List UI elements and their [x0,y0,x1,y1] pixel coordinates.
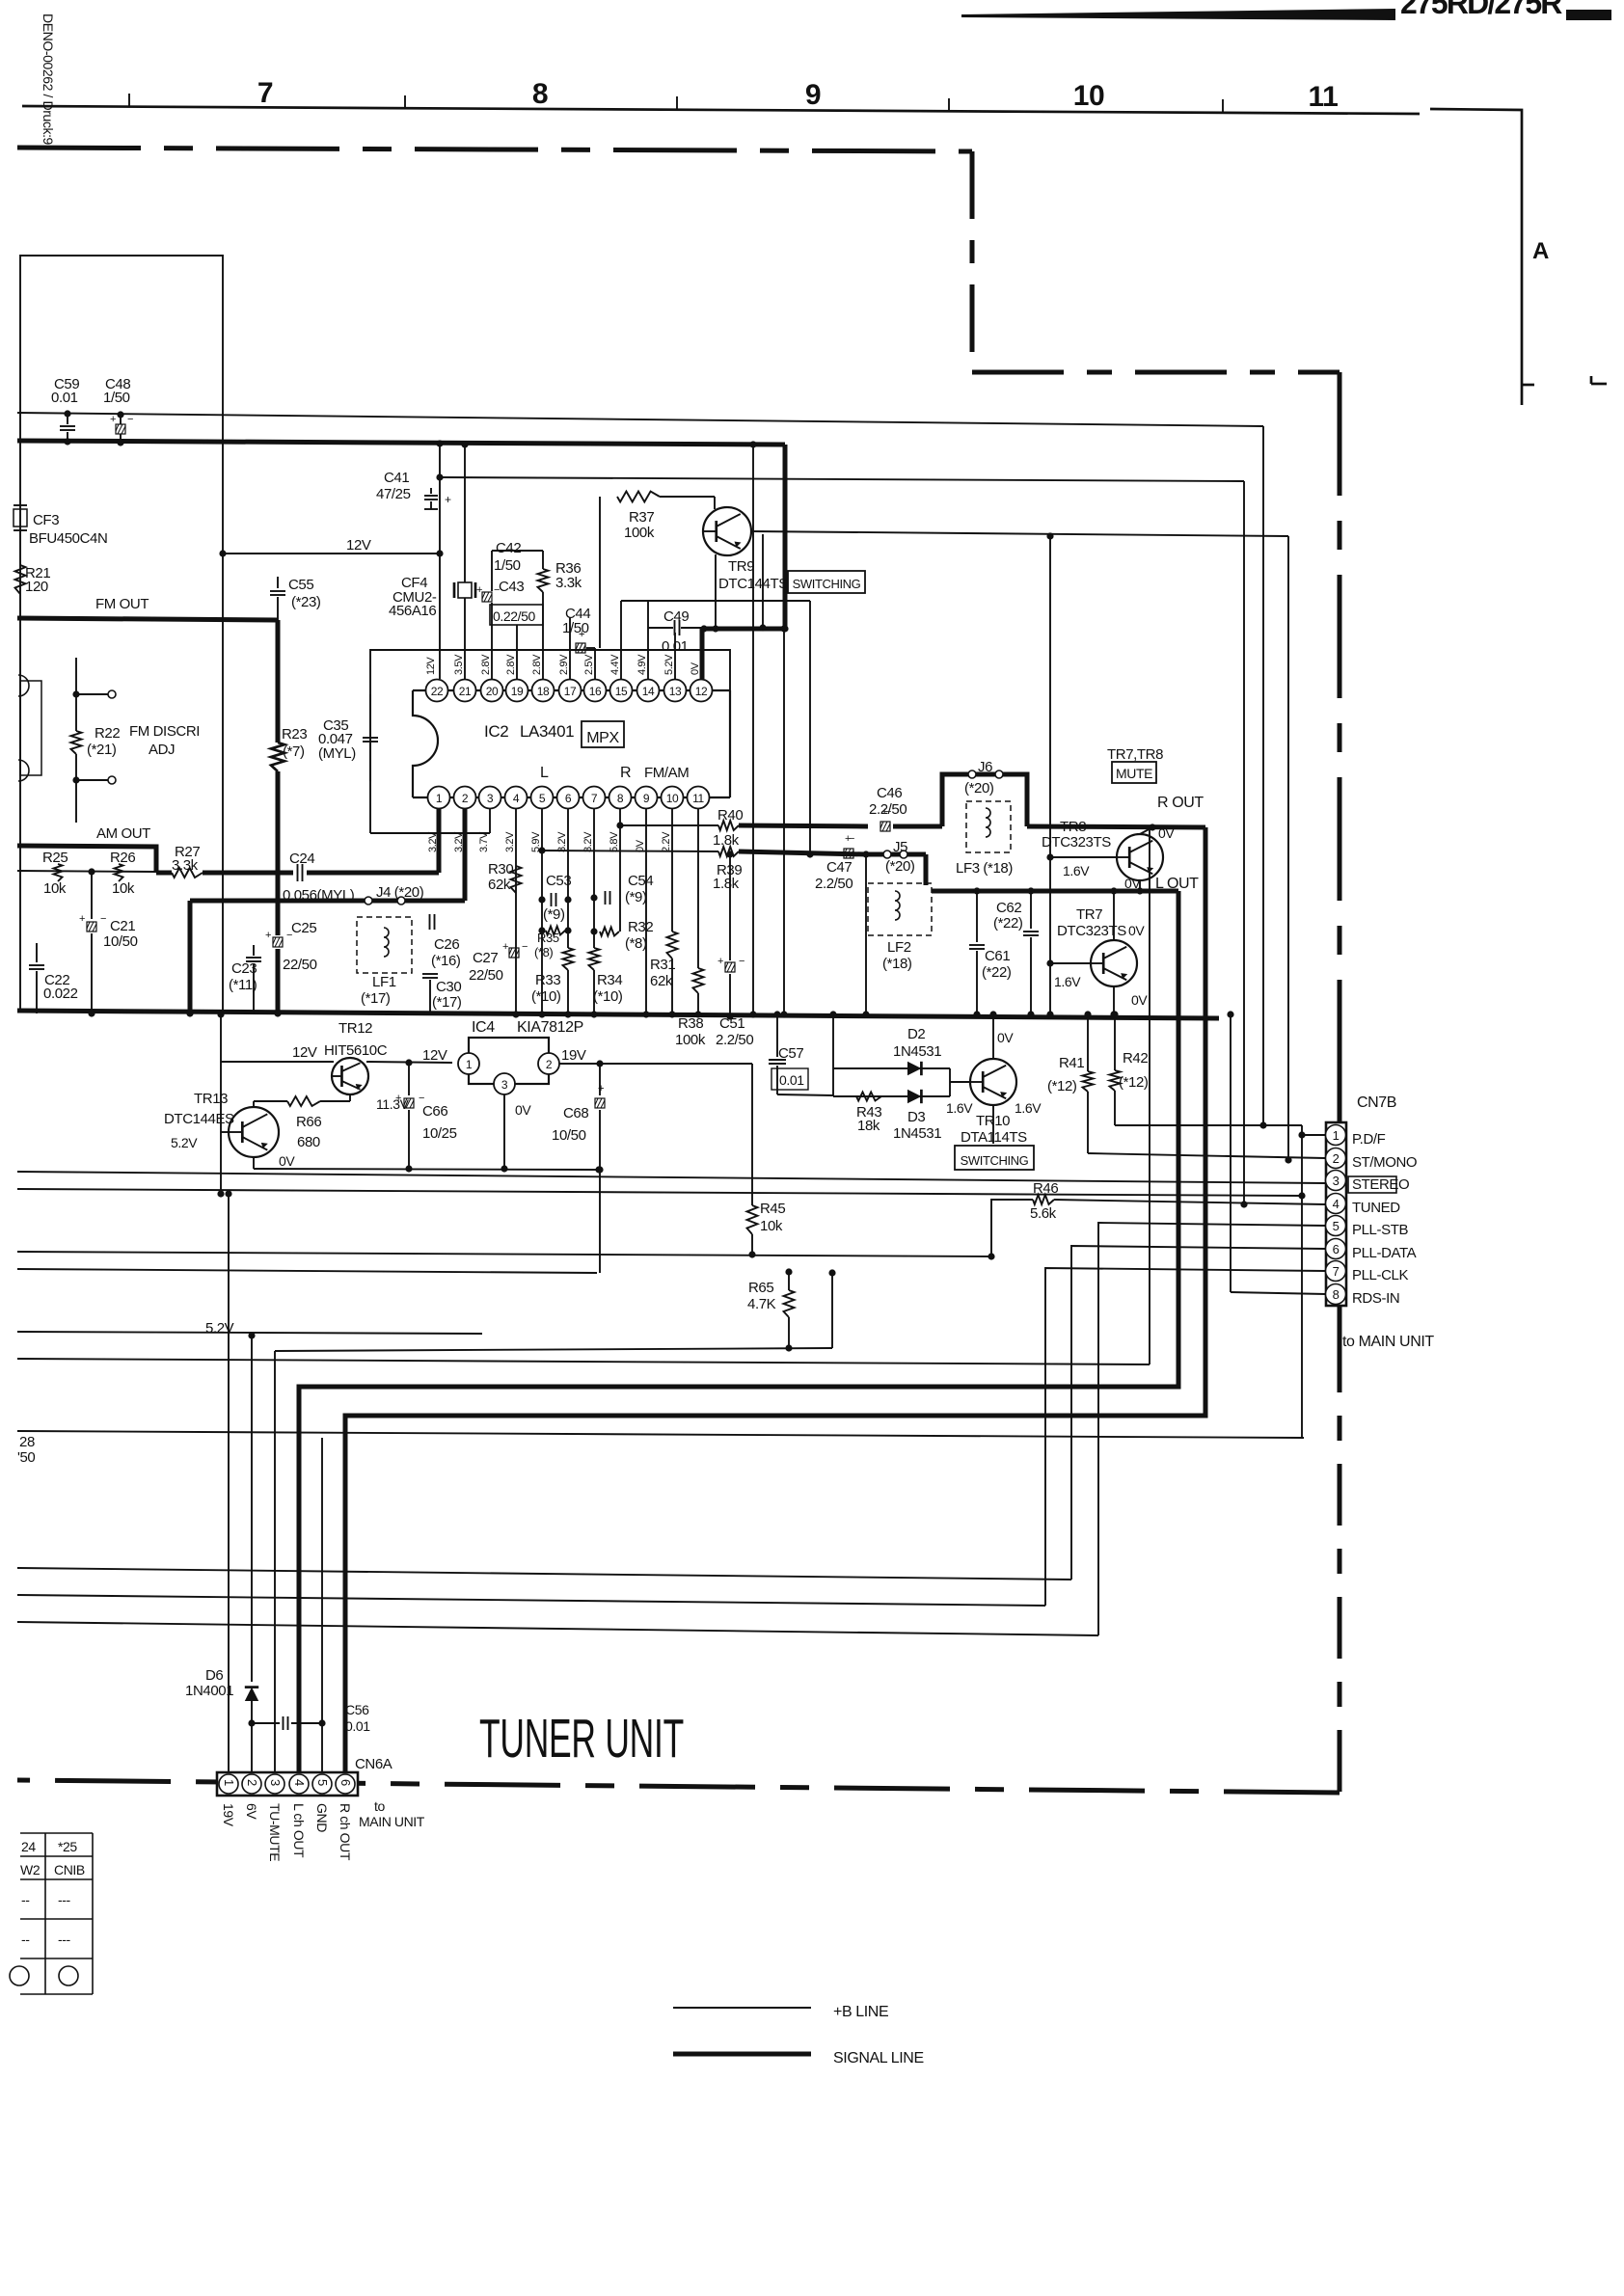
svg-text:CF3: CF3 [33,512,59,528]
wire pin14 [647,601,649,679]
svg-text:0V: 0V [1158,825,1175,841]
capacitor C54 [605,891,607,905]
svg-text:L: L [540,765,549,781]
svg-text:D3: D3 [907,1109,925,1125]
svg-text:3.2V: 3.2V [556,831,568,852]
wire pin17 [569,617,571,679]
svg-text:−: − [127,414,133,425]
svg-text:2.2/50: 2.2/50 [869,801,907,818]
wire 12V branch [223,553,440,554]
wire AM resistor line [17,871,156,872]
wire R ch OUT thick [345,827,1205,1784]
resistor R42 [1114,1014,1116,1070]
wire pin3 [489,809,491,833]
svg-text:10/50: 10/50 [552,1127,586,1144]
wire 0V line low [17,1269,597,1273]
svg-text:8: 8 [1333,1287,1340,1302]
svg-text:0.022: 0.022 [43,986,78,1002]
svg-text:2.8V: 2.8V [505,654,517,675]
ruler tick 5 [1222,99,1224,113]
wire pin4 / R30 / C27 [515,809,517,1014]
wire D2 D3 left rail [832,1014,834,1096]
svg-text:3.2V: 3.2V [582,831,594,852]
svg-text:ST/MONO: ST/MONO [1352,1154,1417,1171]
resistor R46 [991,1200,1033,1256]
svg-text:12V: 12V [292,1044,317,1061]
wire L ch OUT thick [299,891,1178,1784]
svg-text:+: + [265,930,271,941]
svg-text:+: + [110,414,116,425]
svg-text:CN7B: CN7B [1357,1094,1396,1111]
crop tick [1591,383,1607,386]
capacitor C48 [120,415,122,424]
svg-text:C51: C51 [719,1015,744,1032]
wire R37 left [599,497,601,648]
svg-text:C27: C27 [473,950,498,966]
test point upper [76,693,108,695]
svg-text:C26: C26 [434,936,459,953]
wire pin8 stub [1231,1292,1326,1294]
svg-text:3.3k: 3.3k [555,575,582,591]
svg-text:−: − [849,833,854,845]
ruler tick 1 [128,94,130,107]
svg-text:7: 7 [257,77,273,109]
svg-text:PLL-STB: PLL-STB [1352,1222,1408,1238]
svg-text:0.01: 0.01 [345,1718,370,1734]
svg-text:HIT5610C: HIT5610C [324,1042,388,1059]
svg-text:0V: 0V [279,1153,295,1169]
wire pin9 [645,809,647,1014]
transistor TR9 [703,507,751,555]
connector CN6A [217,1772,358,1796]
svg-text:2: 2 [546,1058,553,1071]
capacitor C41 [424,495,438,497]
svg-text:TR9: TR9 [728,558,754,575]
svg-text:P.D/F: P.D/F [1352,1131,1386,1148]
svg-text:47/25: 47/25 [376,486,411,502]
wire R OUT thick [1027,826,1205,827]
svg-text:ADJ: ADJ [149,742,175,758]
svg-text:(*20): (*20) [885,858,915,875]
wire GND bus [17,1011,1219,1018]
svg-text:2.8V: 2.8V [480,654,492,675]
svg-text:AM OUT: AM OUT [96,825,150,842]
svg-text:STEREO: STEREO [1352,1176,1409,1193]
svg-text:(*22): (*22) [982,964,1012,981]
svg-text:0V: 0V [1131,992,1148,1008]
svg-text:FM DISCRI: FM DISCRI [129,723,200,740]
wire TU-MUTE line [275,1348,832,1351]
svg-text:1/50: 1/50 [494,557,521,574]
svg-text:12V: 12V [425,657,437,675]
regulator IC4 [469,1038,549,1084]
svg-text:IC4: IC4 [472,1019,495,1036]
svg-text:(*23): (*23) [291,594,321,610]
wire L line thin [542,851,718,851]
diode D2 [833,1067,950,1069]
svg-text:6V: 6V [244,1803,259,1820]
svg-text:1.6V: 1.6V [1063,863,1090,878]
svg-text:9: 9 [643,792,650,805]
svg-text:4.9V: 4.9V [636,654,648,675]
crystal X1 [458,582,472,598]
svg-text:J5: J5 [893,839,907,855]
svg-text:C54: C54 [628,873,653,889]
svg-text:LA3401: LA3401 [520,722,574,741]
svg-text:TR8: TR8 [1060,819,1086,835]
wire pin8 [619,809,621,932]
svg-text:(*20): (*20) [964,780,994,797]
legend signal line [673,2052,811,2057]
svg-text:W2: W2 [20,1862,41,1877]
svg-text:3: 3 [1333,1174,1340,1188]
svg-text:PLL-CLK: PLL-CLK [1352,1267,1408,1283]
wire pin13 thick link [700,625,707,632]
svg-text:12V: 12V [346,537,371,554]
svg-text:(*8): (*8) [534,945,553,959]
wire AM OUT thick [17,846,156,873]
wire line y1490 [17,1431,1304,1438]
svg-text:1: 1 [1333,1128,1340,1143]
filter LF3 [966,801,1011,852]
resistor R65 [788,1272,790,1290]
wire PLL-CLK path [1045,1268,1326,1606]
svg-text:SIGNAL LINE: SIGNAL LINE [833,2050,924,2066]
svg-text:4: 4 [1333,1197,1340,1211]
capacitor C68 [599,1064,601,1095]
wire top bus drop thick [783,445,788,629]
svg-text:R42: R42 [1123,1050,1148,1067]
svg-text:6: 6 [565,792,572,805]
wire R46 lower line [17,1252,991,1256]
wire R65 right riser [831,1273,833,1348]
capacitor C61 [976,891,978,942]
svg-text:DTC323TS: DTC323TS [1057,923,1126,939]
resistor R23 [276,620,281,743]
svg-text:4.4V: 4.4V [609,654,621,675]
svg-text:8: 8 [532,78,548,110]
ruler tick 4 [948,98,950,112]
svg-text:5.2V: 5.2V [663,654,675,675]
svg-text:C43: C43 [499,579,524,595]
wire riser RDS [1230,1014,1232,1292]
wire R41 to pin2 net [1088,1153,1325,1158]
filter LF1 [357,917,412,973]
wire pin7 / R34 [593,809,595,948]
wire top bus thick [17,441,785,445]
wire CN6A 6V / diode D6 [251,1336,253,1682]
svg-text:D2: D2 [907,1026,925,1042]
svg-text:C21: C21 [110,918,135,934]
svg-text:C53: C53 [546,873,571,889]
svg-text:TUNED: TUNED [1352,1200,1400,1216]
svg-text:R23: R23 [282,726,307,743]
svg-text:19V: 19V [561,1047,586,1064]
svg-text:*25: *25 [58,1839,77,1854]
wire pin11 / R38 [697,809,699,968]
svg-text:21: 21 [459,685,472,698]
svg-text:C66: C66 [422,1103,447,1120]
svg-text:---: --- [58,1931,71,1947]
wire riser pin1 net [1262,426,1264,1125]
svg-text:--: -- [21,1931,30,1947]
transistor TR12 [332,1058,368,1094]
svg-text:J4 (*20): J4 (*20) [376,884,424,901]
wire 12V drop [220,1014,222,1194]
capacitor C22 [36,943,38,962]
svg-text:TR10: TR10 [976,1113,1010,1129]
svg-text:R33: R33 [535,972,560,988]
svg-text:120: 120 [25,579,48,595]
label SWITCHING TR10 [955,1146,1034,1170]
wire pin1 thick [437,809,442,873]
svg-text:(*22): (*22) [993,915,1023,932]
svg-text:5: 5 [315,1779,330,1786]
svg-text:MAIN UNIT: MAIN UNIT [359,1814,425,1829]
svg-text:R31: R31 [650,957,675,973]
svg-text:5: 5 [539,792,546,805]
svg-text:R66: R66 [296,1114,321,1130]
svg-text:275RD/275R: 275RD/275R [1400,0,1562,20]
wire R line thin [620,824,718,826]
svg-text:R41: R41 [1059,1055,1084,1071]
wire feed drop c [783,628,785,1014]
wire line to pin1 net [17,1189,1302,1196]
svg-text:4.7K: 4.7K [747,1296,776,1312]
wire D rail right [949,1068,951,1096]
svg-text:(*12): (*12) [1119,1074,1149,1091]
svg-text:'50: '50 [17,1449,35,1466]
svg-text:to: to [374,1798,385,1814]
wire mute feed drop [809,601,811,854]
svg-text:6: 6 [338,1779,353,1786]
svg-text:MUTE: MUTE [1116,766,1152,781]
svg-text:−: − [579,629,584,640]
svg-text:TR13: TR13 [194,1091,228,1107]
transistor TR10 [992,1014,994,1059]
svg-text:(*17): (*17) [432,994,462,1011]
svg-text:0V: 0V [1128,923,1145,938]
svg-text:680: 680 [297,1134,320,1150]
svg-text:62k: 62k [488,877,511,893]
wire PLL line B [17,1595,1045,1606]
svg-text:R22: R22 [95,725,120,742]
svg-text:R35: R35 [537,931,559,945]
svg-text:(*8): (*8) [625,935,647,952]
wire FM OUT thick [17,618,278,620]
svg-text:LF3 (*18): LF3 (*18) [956,860,1013,877]
wire riser ST/MONO [1287,536,1289,1160]
capacitor C51 [729,854,731,960]
svg-text:C68: C68 [563,1105,588,1121]
wire pin16 [594,648,596,679]
border dash top [17,148,972,151]
svg-text:R: R [620,765,631,781]
svg-text:10: 10 [666,792,679,805]
svg-text:−: − [522,941,528,953]
svg-text:C56: C56 [345,1702,369,1717]
svg-text:C55: C55 [288,577,313,593]
svg-text:C23: C23 [231,960,257,977]
svg-text:5.6k: 5.6k [1030,1205,1057,1222]
svg-text:to MAIN UNIT: to MAIN UNIT [1342,1334,1434,1350]
wire 12V feed [221,1061,334,1063]
svg-text:10: 10 [1073,80,1105,112]
resistor R41 [1087,1014,1089,1071]
svg-text:---: --- [58,1892,71,1907]
svg-text:DTC323TS: DTC323TS [1042,834,1111,851]
page header black bar [961,9,1395,20]
svg-text:(*11): (*11) [229,977,257,993]
connector CN7B [1338,1049,1342,1122]
capacitor C53 [551,893,553,906]
resistor R26 [115,864,123,881]
transistor TR8 [1117,834,1163,880]
svg-text:TUNER UNIT: TUNER UNIT [479,1708,684,1769]
svg-text:C30: C30 [436,979,461,995]
wire riser pin1 corner [1301,1125,1303,1438]
svg-text:2.2V: 2.2V [661,831,672,852]
svg-text:1.6V: 1.6V [1015,1100,1042,1116]
svg-text:(*7): (*7) [283,743,305,760]
svg-text:2.5V: 2.5V [583,654,595,675]
wire C57 link [777,1094,833,1095]
svg-text:3.3k: 3.3k [172,857,199,874]
wire 5.2V line [17,1332,482,1334]
capacitor C59 [67,414,68,424]
jumper J6 [942,774,1027,826]
svg-text:22: 22 [431,685,444,698]
wire pin20 [491,603,493,679]
wire +B rail top [17,413,1263,426]
svg-text:22/50: 22/50 [283,957,317,973]
capacitor C49 [648,627,673,629]
wire pin22 12V [439,443,441,679]
wire LF1 drop [188,901,193,1013]
svg-text:(*12): (*12) [1047,1078,1077,1094]
svg-text:3.5V: 3.5V [453,654,465,675]
svg-text:C49: C49 [663,608,689,625]
svg-text:(*16): (*16) [431,953,461,969]
svg-text:DTA114TS: DTA114TS [961,1129,1027,1146]
svg-text:MPX: MPX [586,730,619,746]
legend +B line [673,2007,811,2009]
svg-text:−: − [739,956,744,967]
svg-text:9: 9 [805,79,821,111]
wire feed drop a [752,445,754,1014]
svg-text:24: 24 [21,1839,36,1854]
svg-text:CN6A: CN6A [355,1756,392,1772]
wire PLL line A [17,1568,1071,1580]
svg-text:12: 12 [695,685,708,698]
wire pin6 / R33 [567,809,569,948]
svg-text:(*9): (*9) [543,906,565,923]
wire STEREO line [17,1172,1325,1183]
left block box [20,256,223,1011]
IC2 top pins [426,680,448,702]
svg-text:2.2/50: 2.2/50 [716,1032,753,1048]
svg-text:RDS-IN: RDS-IN [1352,1290,1399,1307]
svg-text:3: 3 [487,792,494,805]
IC2 shield box [370,650,730,833]
svg-text:1N4531: 1N4531 [893,1043,941,1060]
svg-text:100k: 100k [675,1032,706,1048]
svg-text:C61: C61 [985,948,1010,964]
svg-text:R40: R40 [717,807,743,824]
wire line y1415 [17,1359,1150,1364]
svg-text:1: 1 [436,792,443,805]
svg-text:10/50: 10/50 [103,933,138,950]
resistor R39 [718,847,739,856]
jumper J5 [866,852,926,857]
capacitor C24 [278,871,293,876]
resistor R27 [172,868,203,878]
svg-text:TR7: TR7 [1076,906,1102,923]
svg-text:5.2V: 5.2V [205,1320,234,1337]
svg-text:0V: 0V [997,1030,1014,1045]
wire pin2 thick [463,809,468,901]
svg-text:7: 7 [591,792,598,805]
svg-text:20: 20 [486,685,499,698]
svg-text:(*10): (*10) [593,988,623,1005]
svg-text:(*21): (*21) [87,742,117,758]
svg-text:LF2: LF2 [887,939,911,956]
svg-text:L ch OUT: L ch OUT [291,1803,307,1858]
svg-text:+: + [395,1093,401,1104]
svg-text:R25: R25 [42,850,68,866]
svg-text:TR12: TR12 [338,1020,372,1037]
svg-text:1N4531: 1N4531 [893,1125,941,1142]
svg-text:TU-MUTE: TU-MUTE [267,1803,283,1861]
svg-text:1/50: 1/50 [103,390,130,406]
svg-text:R32: R32 [628,919,653,935]
wire pin21 crystal [464,445,466,679]
svg-text:GND: GND [314,1803,330,1832]
wire 12V rail right [440,477,1244,481]
svg-text:J6: J6 [978,759,992,775]
capacitor C47 [844,833,854,858]
svg-text:(*18): (*18) [882,956,912,972]
resistor R25 [54,864,63,881]
svg-text:C41: C41 [384,470,409,486]
wire pin15 [620,601,622,679]
capacitor C56 [252,1722,280,1724]
resistor R45 [751,1064,753,1205]
wire pin5 [541,809,543,1014]
svg-text:4: 4 [292,1779,307,1786]
wire PLL-STB path [1098,1223,1326,1635]
capacitor C23 [246,957,261,959]
wire TR8 emitter riser [1149,827,1150,1364]
svg-text:10k: 10k [43,880,67,897]
FM discri transformer [20,681,41,775]
resistor R36 [542,559,544,569]
svg-text:0V: 0V [690,662,701,675]
svg-text:PLL-DATA: PLL-DATA [1352,1245,1417,1261]
svg-text:+: + [79,913,85,925]
wire R42 to pin1 net [1115,1124,1302,1126]
diode D3 / resistor R43 [833,1095,950,1097]
svg-text:C62: C62 [996,900,1021,916]
wire CN6A TU-MUTE [274,1351,276,1784]
resistor R40 [718,821,739,830]
svg-text:−: − [598,1083,604,1094]
svg-text:R34: R34 [597,972,622,988]
svg-text:C46: C46 [877,785,902,801]
border dash right step [970,151,975,372]
svg-text:11: 11 [1309,81,1339,113]
svg-text:1: 1 [466,1058,473,1071]
